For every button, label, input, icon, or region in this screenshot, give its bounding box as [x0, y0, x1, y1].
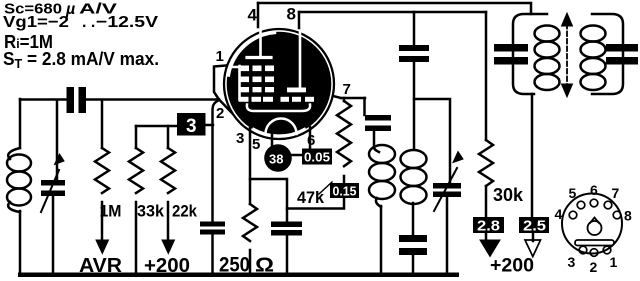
wire branch to variable capacitor CV1	[56, 100, 59, 180]
svg-text:2.5: 2.5	[523, 219, 546, 235]
wire 38 to 0.05 box	[291, 154, 302, 157]
svg-text:5: 5	[252, 136, 260, 153]
tube grid dashes white	[239, 66, 314, 102]
wire pin2 lead	[219, 100, 233, 115]
wire osc column from bus B	[413, 12, 416, 45]
wire 1M branch	[101, 100, 104, 148]
wire box3 to grid column	[205, 124, 213, 127]
variable capacitor CV1 arrow	[41, 170, 59, 212]
capacitor C2 grid bypass	[200, 222, 225, 235]
svg-text:2: 2	[590, 259, 598, 275]
resistor R1 1M	[95, 148, 109, 193]
IFT left winding bracket	[513, 14, 547, 94]
wire 22k riser	[167, 126, 170, 148]
svg-text:4: 4	[555, 206, 563, 222]
wire cathode branch to bypass	[250, 179, 287, 221]
svg-text:30k: 30k	[493, 185, 524, 205]
wire pin7 lead	[333, 96, 341, 98]
capacitor C1 series input	[67, 87, 87, 113]
variable capacitor CV1 plates	[41, 180, 65, 196]
svg-text:8: 8	[624, 208, 632, 224]
inductor antenna coil L1	[8, 148, 20, 159]
variable capacitor CV2 plates	[433, 183, 461, 197]
svg-text:7: 7	[343, 81, 351, 98]
svg-text:−12.5V: −12.5V	[96, 14, 158, 31]
svg-text:2: 2	[216, 105, 224, 122]
tube pin8 inner lead white	[299, 31, 302, 87]
wire pin6 lead	[309, 127, 312, 148]
leader line 47k	[319, 182, 332, 194]
box 2.5	[519, 217, 549, 235]
svg-text:2.8: 2.8	[477, 219, 500, 235]
svg-text:38: 38	[269, 152, 283, 167]
wire left rail upper	[19, 99, 22, 148]
wire 22k to arrow	[167, 202, 170, 241]
tube anode cup white	[247, 105, 310, 112]
wire grid2 bus	[136, 125, 177, 128]
inductor L2 osc coil left	[369, 145, 395, 163]
tube inner ring gap top-left white	[229, 33, 275, 75]
wire C6 to rail	[412, 255, 415, 274]
resistor R4 250 ohm cathode	[243, 204, 257, 241]
IFT left winding loops	[535, 26, 560, 42]
capacitor C5	[399, 45, 429, 62]
arrow below 2.8 solid	[485, 233, 488, 241]
wire left rail lower	[19, 211, 22, 274]
wire pin7 horizontal	[341, 97, 365, 100]
inductor L3 osc coil right	[401, 150, 427, 168]
tube V1 internal black mass	[227, 32, 332, 137]
wire C3 to rail	[286, 235, 289, 274]
wire C2 to rail	[211, 234, 214, 274]
svg-text:0.05: 0.05	[304, 150, 330, 165]
tube V1 envelope	[224, 29, 334, 139]
wire top bus B pin8 to 30k	[299, 11, 486, 14]
IFT right winding bracket	[592, 14, 623, 94]
wire 47k to 0.15 box	[343, 176, 346, 183]
wire lead to 38 disc	[271, 130, 274, 146]
tube anode bar white	[247, 56, 271, 59]
IFT right winding loops	[581, 26, 606, 42]
svg-text:+200: +200	[490, 256, 534, 277]
tube pin4 inner lead white	[259, 31, 262, 56]
svg-text:5: 5	[569, 185, 577, 201]
svg-text:3: 3	[186, 116, 197, 137]
arrow below 2.5 hollow	[532, 233, 535, 241]
wire L2 to rail	[380, 206, 383, 274]
box 0.15	[330, 183, 359, 199]
wire osc grid branch	[363, 98, 366, 115]
wire CV2 to rail	[446, 197, 449, 274]
socket pin holes	[569, 199, 621, 256]
svg-text:6: 6	[307, 132, 315, 149]
socket outline	[562, 194, 622, 254]
wire R4 to rail	[249, 250, 252, 274]
resistor R3 22k	[161, 148, 175, 193]
ground rail	[18, 273, 459, 278]
text Sc=680 uA/V	[3, 1, 159, 71]
wire 0.15 to cathode node	[287, 198, 344, 209]
svg-text:0.15: 0.15	[333, 184, 357, 199]
svg-text:3: 3	[236, 130, 244, 147]
wire 30k column	[485, 12, 488, 140]
wire top input line	[20, 98, 219, 101]
variable capacitor CV2 arrow	[434, 168, 457, 211]
IFT tuning arrow	[566, 24, 568, 86]
svg-text:1: 1	[610, 254, 618, 270]
svg-text:1M: 1M	[100, 203, 122, 221]
svg-text:22k: 22k	[172, 203, 198, 221]
wire IFT left bottom to 2.5	[531, 94, 534, 217]
svg-text:. .: . .	[82, 14, 95, 31]
wire 33k riser	[135, 126, 138, 148]
wire C4 to coil L2	[374, 131, 379, 152]
wire C5 down to coil L3	[413, 62, 416, 148]
capacitor C4 osc grid	[365, 115, 391, 131]
tube cathode dome white	[266, 118, 297, 134]
svg-text:Vg1=−2: Vg1=−2	[3, 14, 69, 31]
wire grid column down	[213, 100, 220, 221]
arrow +200 left down	[162, 240, 175, 254]
capacitor C6	[399, 235, 427, 255]
box 2.8	[473, 217, 504, 235]
arrow AVR down	[96, 240, 109, 254]
capacitor C8 IFT right	[606, 44, 638, 65]
wire cathode lead pins 3/5	[249, 128, 252, 204]
wire pin4 riser	[257, 3, 260, 27]
resistor R5 47k	[337, 101, 351, 166]
box 3 screen grid	[177, 113, 206, 137]
wire branch to osc varcap CV2	[414, 99, 450, 183]
wire 30k to 2.8 box	[485, 186, 488, 217]
wire 33k to rail	[135, 202, 138, 274]
socket labels	[555, 182, 633, 275]
svg-text:6: 6	[590, 182, 598, 198]
resistor R2 33k	[129, 148, 143, 193]
wire pin1 lead	[214, 66, 226, 100]
node 38 black disc	[264, 144, 292, 172]
capacitor C7 IFT left	[494, 44, 528, 65]
box 0.05	[302, 149, 332, 165]
wire CV1 to rail	[52, 196, 55, 274]
wire L3 to C6	[412, 203, 415, 235]
resistor R6 30k	[479, 140, 493, 186]
wire top bus A pin4 to IFT	[258, 3, 531, 14]
svg-text:1: 1	[216, 48, 224, 65]
tube inner ring gap bottom white	[254, 129, 305, 136]
svg-text:ST = 2.8 mA/V max.: ST = 2.8 mA/V max.	[3, 49, 159, 71]
capacitor C3 cathode bypass	[271, 222, 302, 236]
svg-text:8: 8	[287, 5, 296, 24]
svg-text:33k: 33k	[137, 203, 165, 221]
wire 1M to arrow	[101, 202, 104, 241]
socket spigot bar	[575, 240, 614, 246]
tube left cage white	[232, 66, 240, 100]
wire pin8 riser	[298, 12, 301, 28]
wire 47k riser	[343, 98, 346, 101]
socket center key	[588, 221, 602, 235]
svg-text:7: 7	[612, 185, 620, 201]
svg-text:3: 3	[568, 254, 576, 270]
svg-text:4: 4	[248, 6, 258, 25]
